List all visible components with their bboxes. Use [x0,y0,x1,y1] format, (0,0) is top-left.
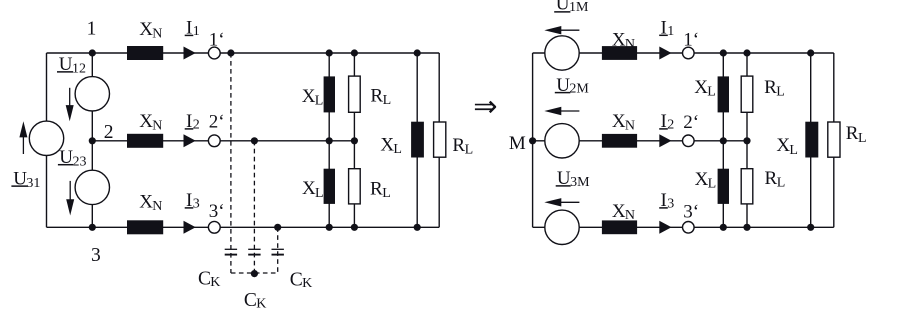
svg-text:L: L [708,177,717,192]
svg-text:1: 1 [193,24,200,39]
svg-text:X: X [695,169,709,190]
reactance XN (right line 3) [602,220,637,234]
node: RL23 bottom junction [351,224,358,231]
wire: line-2 middle conductor (right circuit) [533,140,747,142]
reactance XL (right branch 1-2) [718,76,729,112]
svg-text:12: 12 [72,62,86,77]
resistor RL (right branch 2-3) [741,169,753,204]
svg-text:R: R [764,77,777,98]
svg-text:X: X [694,77,708,98]
svg-text:C: C [198,269,211,290]
svg-text:X: X [139,111,153,132]
reactance XL (right branch 1-3) [805,122,818,158]
svg-text:X: X [380,134,394,155]
node: capacitor star point [251,270,258,277]
node: RL12 top junction [351,49,358,56]
svg-text:L: L [707,84,716,99]
svg-text:C: C [290,269,303,290]
svg-text:R: R [370,86,383,107]
svg-text:1M: 1M [569,0,589,15]
svg-text:N: N [625,208,635,223]
svg-text:2‘: 2‘ [683,112,699,133]
node 2 on line 2 [89,137,96,144]
terminal 1‘ (right) [683,47,695,59]
svg-text:K: K [302,276,312,291]
svg-text:3‘: 3‘ [683,201,699,222]
current arrow I3 [184,221,196,234]
svg-text:2: 2 [667,118,674,133]
wire: line-1 top conductor (left circuit) [47,52,440,54]
svg-text:R: R [452,135,465,156]
voltage arrow U3M [544,198,561,206]
svg-text:N: N [152,199,162,214]
node: RL12 bottom junction [351,137,358,144]
node: RL12 top junction (right) [743,49,750,56]
svg-text:X: X [139,192,153,213]
node: XL13 bottom junction [414,224,421,231]
svg-text:L: L [315,186,324,201]
svg-text:L: L [393,142,402,157]
svg-text:R: R [846,123,859,144]
current arrow I1 (right) [659,47,671,60]
svg-text:1: 1 [667,24,674,39]
reactance XL (right branch 2-3) [718,169,729,204]
resistor RL (branch 2-3) [349,169,361,204]
svg-text:3: 3 [193,197,200,212]
svg-text:L: L [777,176,786,191]
reactance XL (branch 1-3) [411,122,424,158]
svg-text:3: 3 [91,245,101,266]
node: RL23 bottom junction (right) [743,224,750,231]
wire: load branch 1-2 reactance leg (right) [722,53,724,227]
wire: dashed lead to coupling capacitor CK1 [230,53,232,273]
node: XL23 bottom junction (right) [720,224,727,231]
wire: line-1 top conductor (right circuit) [533,52,834,54]
wire: line-3 bottom conductor (left circuit) [47,226,440,228]
svg-text:X: X [612,30,626,51]
wire: load branch 1-3 reactance leg (right) [810,53,812,227]
node: XL13 top junction [414,49,421,56]
node 1 on line 1 [89,49,96,56]
reactance XL (branch 1-2) [324,76,335,112]
wire: dashed lead to coupling capacitor CK3 [277,227,279,273]
current arrow I3 (right) [659,221,671,234]
node: CK3 tap on line 3 [274,224,281,231]
capacitor CK1 [225,248,237,250]
svg-text:1‘: 1‘ [683,30,699,51]
wire: load branch 1-3 resistance leg [438,53,440,227]
svg-text:2M: 2M [569,82,589,97]
node: RL12 bottom junction (right) [743,137,750,144]
voltage arrow U31 [22,135,24,154]
svg-text:N: N [152,118,162,133]
reactance XN (right line 2) [602,134,637,148]
wire: star-point rail M [532,53,534,227]
svg-text:K: K [210,275,220,290]
svg-text:L: L [383,93,392,108]
svg-text:X: X [302,86,316,107]
terminal 3‘ (right) [683,222,695,234]
wire: load branch 1-2 resistance leg [353,53,355,227]
svg-text:1: 1 [87,19,97,40]
wire: line-2 middle conductor (left circuit) [92,140,354,142]
node 3 on line 3 [89,224,96,231]
resistor RL (right branch 1-3) [828,122,840,157]
source U31 [29,121,63,155]
node M on star rail [529,137,536,144]
reactance XN (line 3) [127,220,163,234]
svg-text:K: K [256,297,266,312]
svg-text:X: X [776,135,790,156]
current arrow I1 [184,47,196,60]
svg-text:2: 2 [193,118,200,133]
wire: line-3 bottom conductor (right circuit) [533,226,834,228]
capacitor CK2 [248,248,260,250]
svg-text:N: N [152,27,162,42]
svg-text:M: M [509,133,526,154]
node: XL12 bottom junction (right) [720,137,727,144]
svg-text:N: N [625,37,635,52]
svg-text:L: L [465,143,474,158]
voltage arrow U1M [544,26,561,34]
reactance XN (line 1) [127,46,163,60]
node: CK1 tap on line 1 [227,49,234,56]
capacitor CK3 [272,248,284,250]
svg-text:L: L [776,84,785,99]
node: XL12 bottom junction [326,137,333,144]
voltage arrow U23 [69,181,71,201]
source U12 [75,77,109,111]
node: XL13 bottom junction (right) [807,224,814,231]
node: XL12 top junction [326,49,333,56]
svg-text:2: 2 [104,122,114,143]
svg-text:X: X [139,19,153,40]
svg-text:3‘: 3‘ [209,201,225,222]
svg-text:L: L [789,143,798,158]
terminal 1‘ [208,47,220,59]
svg-text:⇒: ⇒ [473,91,497,123]
wire: load branch 1-3 resistance leg (right) [833,53,835,227]
resistor RL (right branch 1-2) [741,76,753,112]
svg-text:R: R [765,168,778,189]
svg-text:23: 23 [73,154,87,169]
terminal 3‘ [208,221,220,233]
resistor RL (branch 1-3) [434,122,446,157]
svg-text:X: X [612,201,626,222]
svg-text:L: L [315,93,324,108]
svg-text:1‘: 1‘ [209,29,225,50]
voltage arrow U12 [69,88,71,107]
svg-text:X: X [612,111,626,132]
node: CK2 tap on line 2 [251,137,258,144]
node: XL13 top junction (right) [807,49,814,56]
node: XL23 bottom junction [326,224,333,231]
wire: load branch 1-2 resistance leg (right) [746,53,748,227]
wire: load branch 1-2 reactance leg [328,53,330,227]
svg-text:L: L [858,131,867,146]
source U3M [545,210,579,244]
voltage arrow U2M [544,107,561,115]
reactance XL (branch 2-3) [324,169,335,204]
reactance XN (right line 1) [602,46,637,60]
reactance XN (line 2) [127,134,163,148]
svg-text:3M: 3M [570,175,590,190]
wire: middle source rail [91,53,93,227]
terminal 2‘ [208,135,220,147]
svg-text:C: C [244,290,257,311]
resistor RL (branch 1-2) [349,76,361,112]
current arrow I2 (right) [659,134,671,147]
current arrow I2 [184,134,196,147]
source U23 [75,170,109,204]
svg-text:L: L [382,186,391,201]
svg-text:N: N [625,118,635,133]
svg-text:2‘: 2‘ [209,112,225,133]
svg-text:3: 3 [667,197,674,212]
node: XL12 top junction (right) [720,49,727,56]
svg-text:X: X [302,178,316,199]
svg-text:R: R [370,178,383,199]
wire: dashed capacitor star bus [231,272,278,274]
wire: dashed lead to coupling capacitor CK2 [253,141,255,273]
wire: load branch 1-3 reactance leg [416,53,418,227]
source U2M [545,124,579,158]
terminal 2‘ (right) [683,135,695,147]
source U1M [545,36,579,70]
wire: left delta rail [46,53,48,227]
svg-text:31: 31 [26,176,40,191]
